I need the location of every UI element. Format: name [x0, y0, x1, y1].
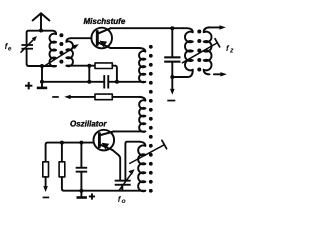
- negative supply arrow under T2: [170, 77, 175, 95]
- node: collector / C3 junction: [170, 26, 174, 30]
- IF output bottom arrow: [214, 72, 227, 76]
- adjustable-core bar of T3: [130, 140, 167, 163]
- AGC arrow pointing left: [64, 95, 71, 99]
- transformer T3 winding W2 (collector): [139, 97, 145, 132]
- battery + terminal (mixer): [37, 82, 47, 89]
- label minus (AGC line): [52, 96, 59, 98]
- capacitor C4 (base bypass): [76, 143, 88, 191]
- transformer T1 secondary winding: [66, 38, 73, 66]
- antenna: [33, 13, 50, 30]
- node: Cb top: [79, 141, 83, 145]
- node: rail / C4 junction: [79, 189, 83, 193]
- wire: tank circuit top rail: [27, 31, 53, 44]
- resistor R3 (base, to minus): [43, 162, 49, 192]
- wire: W2 bottom to Q2 collector: [114, 130, 144, 132]
- transistor Q2 (oscillator, PNP): [94, 130, 115, 151]
- svg-text:e: e: [8, 46, 12, 53]
- resistor R1: [95, 63, 117, 82]
- transformer T2 primary winding: [183, 28, 193, 77]
- node B: lower wire junction: [87, 80, 91, 84]
- svg-text:Oszillator: Oszillator: [70, 119, 107, 128]
- node: antenna junction on tank top wire: [39, 29, 43, 33]
- resistor R4 (base, to plus rail): [59, 143, 65, 191]
- IF output top arrow: [209, 25, 226, 29]
- transistor Q1 (mixer, PNP): [91, 28, 112, 49]
- adjustable-core bar of T2: [182, 39, 219, 63]
- svg-text:Mischstufe: Mischstufe: [84, 17, 126, 26]
- label fz: [226, 44, 234, 55]
- node: Rb top: [60, 141, 64, 145]
- transformer T3 core: [149, 45, 153, 193]
- transformer T2 core: [197, 30, 201, 72]
- label + (mixer supply): [25, 82, 32, 89]
- node: + terminal junction: [40, 80, 44, 84]
- wire: node A riser: [88, 66, 90, 82]
- node: C3 bottom junction: [170, 75, 174, 79]
- transformer T3 winding W1 (emitter): [139, 48, 145, 82]
- label + (oscillator supply): [89, 193, 95, 199]
- node A: T1 bottom / R1 junction: [87, 64, 91, 68]
- capacitor C3 across T2 primary: [164, 28, 180, 77]
- wire: oscillator + rail: [64, 190, 145, 192]
- wire: junction to T2 primary bottom: [172, 76, 187, 78]
- node: R1/C2 right junction: [115, 80, 119, 84]
- wire: Q1 emitter to winding W1: [110, 47, 139, 49]
- label fo: [118, 195, 126, 205]
- wire: Q2 emitter to tank top: [113, 150, 121, 180]
- capacitor C2: [103, 75, 109, 88]
- wire: Q2 base rail: [46, 143, 94, 162]
- variable capacitor C5 fo: [115, 169, 135, 190]
- transformer T2 secondary winding: [204, 27, 212, 74]
- wire: decoupling lower rail: [42, 66, 144, 82]
- resistor R2: [70, 94, 139, 100]
- transformer T3 winding W3 (tank): [138, 142, 145, 192]
- label fe: [5, 41, 12, 53]
- svg-text:o: o: [122, 198, 126, 205]
- wire: Q1 collector rail to T2: [110, 27, 183, 29]
- wire: T1 secondary bottom to node A: [67, 65, 96, 67]
- label minus (supply): [167, 100, 175, 102]
- wire: T1 secondary top to Q1 base: [71, 37, 92, 39]
- node: tank bottom junction: [40, 64, 44, 68]
- transformer T1 core: [59, 33, 63, 63]
- battery + terminal (oscillator): [77, 191, 87, 199]
- transformer T1 primary winding: [42, 31, 56, 67]
- tuning arrow of T1: [44, 44, 79, 66]
- label minus (R3): [43, 197, 50, 199]
- variable capacitor C1 fe: [21, 36, 41, 66]
- svg-text:z: z: [229, 47, 234, 54]
- wire: W3 top loop: [125, 142, 139, 180]
